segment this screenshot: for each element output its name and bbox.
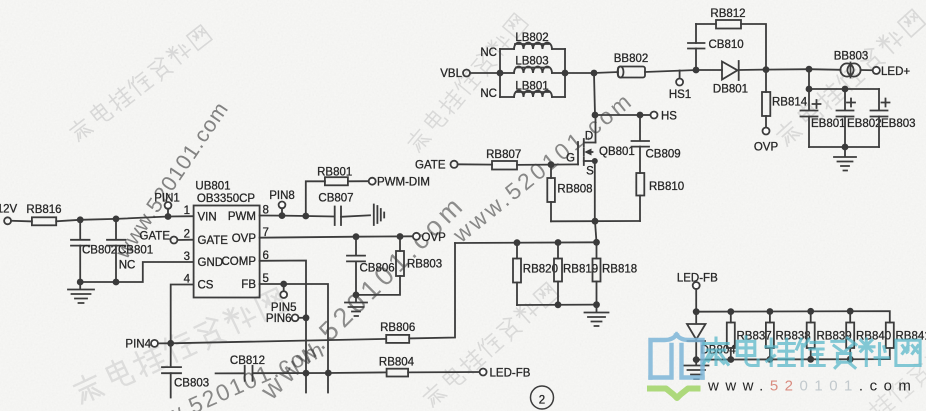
ground (sense rail): [585, 305, 609, 326]
capacitor CB806: [347, 237, 395, 295]
junction: [113, 279, 120, 286]
svg-text:GATE: GATE: [415, 159, 446, 171]
capacitor EB802: [837, 89, 882, 147]
junction: [548, 161, 555, 168]
wire: [328, 371, 386, 374]
capacitor EB803: [871, 89, 916, 147]
capacitor CB810: [688, 24, 744, 70]
capacitor CB802: [71, 220, 117, 282]
junction: [807, 308, 814, 315]
svg-text:CB809: CB809: [646, 149, 681, 161]
svg-text:RB806: RB806: [380, 322, 415, 334]
wire: [861, 69, 873, 71]
junction: [842, 86, 849, 93]
wire sense bottom rail: [517, 304, 597, 306]
svg-text:PIN6: PIN6: [266, 313, 292, 325]
capacitor CB812: [230, 355, 265, 381]
wire sense rail: [455, 241, 597, 244]
svg-text:EB803: EB803: [881, 118, 916, 130]
pin 4 CS label: [184, 274, 214, 292]
wire: [253, 372, 329, 374]
svg-text:2: 2: [184, 229, 190, 241]
svg-text:CB810: CB810: [709, 39, 744, 51]
wire: [809, 68, 841, 71]
wire EB top rail: [809, 69, 879, 89]
wire CS sense line: [171, 339, 387, 343]
svg-text:1: 1: [184, 205, 190, 217]
watermark cjk bottom-right: [829, 328, 926, 411]
node 12V: [0, 204, 18, 225]
junction: [807, 356, 814, 363]
inductor LB802: [500, 32, 565, 49]
wire: [595, 221, 597, 242]
node PIN4: [125, 338, 170, 350]
node PWM-DIM: [369, 176, 430, 188]
pin 3 GND label: [184, 251, 223, 269]
op-amp U1 IC UB801 OB3350CP body: [194, 181, 260, 298]
junction: [727, 356, 734, 363]
capacitor CB801: [107, 219, 153, 282]
wire drain feed: [594, 73, 595, 115]
resistor RB808: [547, 165, 592, 222]
wire GND pin3 to caps: [80, 262, 193, 282]
capacitor CB809: [632, 115, 681, 173]
junction: [763, 66, 770, 73]
junction: [302, 213, 309, 220]
svg-text:GATE: GATE: [198, 235, 229, 247]
diode DB804: [687, 312, 736, 360]
svg-text:VIN: VIN: [198, 212, 217, 224]
wire: [306, 215, 334, 218]
node HS1: [669, 71, 691, 102]
junction: [165, 213, 172, 220]
svg-text:12V: 12V: [0, 204, 18, 216]
svg-text:OVP: OVP: [422, 232, 447, 244]
bead BB802: [614, 53, 649, 78]
junction: [591, 70, 598, 77]
svg-text:FB: FB: [241, 279, 256, 291]
wire COMP pin6: [260, 261, 306, 393]
ground (DB804): [684, 360, 709, 379]
node VBL: [440, 68, 470, 80]
wire: [348, 180, 369, 182]
svg-text:LED+: LED+: [881, 66, 910, 78]
resistor RB838: [766, 312, 811, 360]
wire: [595, 114, 640, 116]
node circled 2: [531, 386, 554, 409]
bead BB803: [834, 51, 869, 78]
svg-text:RB818: RB818: [602, 264, 637, 276]
svg-text:G: G: [566, 153, 575, 165]
wire: [356, 235, 413, 237]
wire: [741, 24, 766, 70]
inductor LB803: [500, 56, 565, 74]
wire: [645, 70, 696, 72]
junction: [592, 218, 599, 225]
svg-text:D: D: [585, 131, 593, 143]
junction: [353, 292, 360, 299]
svg-text:CB806: CB806: [360, 263, 395, 275]
svg-text:www.520101.com: www.520101.com: [707, 378, 917, 395]
junction: [113, 216, 120, 223]
junction: [325, 370, 332, 377]
resistor RB814: [762, 70, 808, 128]
svg-text:RB803: RB803: [407, 258, 442, 270]
svg-text:RB804: RB804: [379, 356, 415, 368]
wire CB812 row: [216, 372, 245, 374]
junction: [842, 144, 849, 151]
svg-text:2: 2: [539, 395, 545, 407]
node HS: [651, 111, 678, 123]
svg-text:GATE: GATE: [140, 231, 171, 243]
wire: [282, 215, 306, 217]
pin 2 GATE label: [184, 229, 229, 247]
junction: [693, 356, 700, 363]
inductor LB801: [500, 81, 565, 98]
resistor RB820: [513, 243, 558, 305]
wire LED-FB bottom rail: [696, 348, 890, 360]
node PIN8: [269, 190, 295, 216]
svg-text:DB801: DB801: [713, 84, 748, 96]
junction: [497, 70, 504, 77]
junction: [77, 216, 84, 223]
wire: [696, 69, 722, 71]
junction: [727, 308, 734, 315]
svg-text:RB812: RB812: [710, 8, 745, 20]
wire RB801 riser: [306, 181, 325, 216]
junction: [303, 370, 310, 377]
watermark cjk top-left: [67, 23, 213, 144]
wire gate: [551, 163, 578, 165]
junction: [303, 314, 310, 321]
resistor RB816: [26, 204, 61, 225]
junction: [637, 112, 644, 119]
wire CS pin4: [171, 285, 194, 344]
node OVP (output): [754, 128, 779, 154]
resistor RB812: [710, 8, 745, 29]
pin 5 FB label: [241, 273, 269, 291]
svg-text:CS: CS: [198, 280, 214, 292]
node PIN1: [154, 193, 180, 217]
ground (CB806): [345, 295, 367, 316]
svg-text:OVP: OVP: [232, 233, 257, 245]
junction: [767, 356, 774, 363]
resistor RB806: [380, 322, 415, 343]
wire EB bottom rail: [809, 146, 879, 148]
junction: [767, 308, 774, 315]
watermark cjk center-bottom: [420, 281, 560, 410]
junction: [77, 279, 84, 286]
junction: [280, 281, 287, 288]
svg-text:PWM: PWM: [228, 211, 256, 223]
wire: [696, 23, 716, 25]
svg-text:RB810: RB810: [649, 181, 684, 193]
wire source rail: [551, 220, 640, 222]
capacitor CB803: [162, 343, 209, 397]
pin 8 PWM label: [228, 205, 269, 224]
node LED-FB (right block): [677, 273, 718, 312]
wire: [766, 68, 809, 70]
wire: [408, 371, 480, 373]
capacitor CB807: [318, 193, 353, 225]
pin 6 COMP label: [222, 250, 269, 268]
logo cjk text: [704, 337, 920, 368]
pin 1 VIN label: [184, 205, 217, 224]
svg-text:CB812: CB812: [230, 355, 265, 367]
logo book icon: [651, 335, 703, 378]
ground (PWM, rotated): [374, 205, 384, 226]
wire PWM pin8: [260, 215, 282, 217]
junction: [514, 239, 521, 246]
resistor RB818: [593, 242, 638, 304]
wire 12V rail: [56, 216, 193, 221]
svg-text:HS1: HS1: [669, 89, 691, 101]
svg-text:RB807: RB807: [486, 149, 521, 161]
junction: [555, 301, 562, 308]
junction: [806, 86, 813, 93]
wire: [409, 243, 455, 338]
resistor RB810: [636, 173, 684, 221]
svg-text:HS: HS: [661, 111, 677, 123]
svg-text:VBL: VBL: [440, 68, 462, 80]
wire: [739, 69, 766, 71]
wire VBL to inductor block: [470, 72, 500, 74]
svg-text:EB801: EB801: [811, 118, 846, 130]
node GATE (drive): [415, 159, 458, 171]
resistor RB840: [846, 311, 891, 359]
resistor RB839: [807, 311, 852, 359]
junction: [593, 301, 600, 308]
node PIN6: [266, 313, 306, 325]
wire: [594, 72, 618, 73]
svg-text:LED-FB: LED-FB: [490, 367, 531, 379]
junction: [555, 239, 562, 246]
wire: [341, 215, 370, 217]
svg-text:RB816: RB816: [26, 204, 61, 216]
svg-text:QB801: QB801: [599, 146, 635, 158]
node LED+: [873, 66, 911, 78]
watermark cjk bottom-left: [71, 285, 287, 407]
junction: [353, 233, 360, 240]
node LED-FB (left): [480, 367, 531, 379]
watermark cjk upper-middle: [405, 12, 530, 155]
wire FB pin5: [260, 284, 328, 393]
svg-text:RB814: RB814: [772, 97, 808, 109]
node OVP (pin7 side): [413, 232, 446, 244]
junction: [693, 67, 700, 74]
svg-text:CB803: CB803: [174, 377, 209, 389]
svg-text:LB803: LB803: [515, 56, 548, 68]
svg-text:COMP: COMP: [222, 256, 257, 268]
svg-text:GND: GND: [198, 257, 224, 269]
svg-text:PIN8: PIN8: [269, 190, 295, 202]
diode DB801: [713, 61, 748, 96]
junction: [806, 66, 813, 73]
logo green swoosh: [650, 389, 698, 399]
svg-text:BB803: BB803: [834, 51, 869, 63]
junction: [167, 340, 174, 347]
svg-text:OB3350CP: OB3350CP: [197, 193, 256, 205]
wire: [565, 72, 594, 74]
wire: [458, 163, 492, 165]
svg-text:PIN4: PIN4: [125, 338, 151, 350]
wire left riser of inductor block: [499, 49, 501, 97]
watermark cjk top-right: [773, 7, 926, 148]
svg-text:CB807: CB807: [318, 193, 353, 205]
wire OVP pin7: [260, 237, 356, 238]
junction: [847, 356, 854, 363]
junction: [693, 308, 700, 315]
wire: [177, 239, 193, 241]
svg-text:PWM-DIM: PWM-DIM: [377, 176, 430, 188]
transistor QB801: [566, 115, 635, 221]
svg-text:UB801: UB801: [195, 181, 230, 193]
wire: [11, 220, 32, 223]
junction: [592, 112, 599, 119]
resistor RB804: [379, 356, 415, 376]
svg-text:NC: NC: [480, 47, 497, 59]
svg-text:S: S: [586, 166, 594, 178]
ground (EB caps): [834, 147, 856, 171]
svg-text:RB808: RB808: [557, 184, 592, 196]
svg-text:CB801: CB801: [118, 245, 153, 257]
svg-text:OVP: OVP: [754, 142, 779, 154]
resistor RB803: [356, 237, 442, 295]
svg-text:NC: NC: [119, 260, 136, 272]
LOGO: [650, 335, 920, 399]
resistor RB837: [727, 312, 772, 360]
capacitor EB801: [801, 89, 846, 147]
resistor RB801: [317, 166, 352, 185]
wire right riser of inductor block: [564, 49, 566, 97]
resistor RB819: [554, 243, 598, 305]
junction: [397, 233, 404, 240]
ground (input caps): [68, 282, 94, 303]
svg-text:NC: NC: [480, 88, 497, 100]
pin 7 OVP label: [232, 227, 269, 245]
wire LED-FB top rail: [696, 311, 890, 322]
svg-text:RB820: RB820: [523, 264, 558, 276]
node PIN5: [271, 284, 297, 314]
junction: [279, 212, 286, 219]
resistor RB807: [486, 149, 521, 170]
node GATE (pin2): [140, 231, 178, 244]
svg-text:RB838: RB838: [776, 331, 811, 343]
svg-text:BB802: BB802: [614, 53, 649, 65]
wire: [517, 164, 551, 166]
wire: [640, 114, 651, 116]
junction: [847, 308, 854, 315]
junction: [593, 239, 600, 246]
junction: [562, 70, 569, 77]
resistor RB841: [886, 323, 926, 349]
svg-text:EB802: EB802: [847, 118, 882, 130]
